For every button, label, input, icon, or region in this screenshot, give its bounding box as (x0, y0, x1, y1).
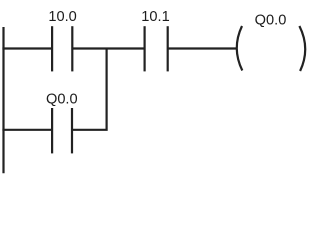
svg-text:10.0: 10.0 (48, 9, 76, 25)
wire contact I0.0 to contact I0.1 (72, 47, 144, 49)
svg-text:Q0.0: Q0.0 (255, 13, 287, 29)
contact I0.1 right bar (167, 26, 169, 71)
contact Q0.0 left bar (51, 108, 53, 153)
contact Q0.0 right bar (71, 108, 73, 153)
left power rail (2, 27, 4, 173)
contact I0.0 (label 10.0) left bar (51, 26, 53, 71)
coil Q0.0 left parenthesis (237, 26, 243, 71)
contact I0.1 (label 10.1) left bar (144, 26, 146, 71)
svg-text:Q0.0: Q0.0 (46, 91, 78, 107)
contact I0.0 right bar (71, 26, 73, 71)
wire contact I0.1 to coil Q0.0 (168, 47, 238, 49)
wire rail to contact Q0.0 (branch) (2, 129, 52, 131)
coil Q0.0 right parenthesis (299, 26, 305, 71)
wire rail to contact I0.0 (2, 47, 52, 49)
svg-text:10.1: 10.1 (141, 9, 169, 25)
wire contact Q0.0 to branch corner (72, 49, 107, 130)
